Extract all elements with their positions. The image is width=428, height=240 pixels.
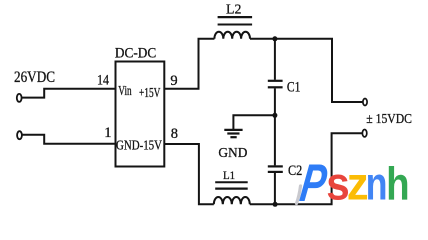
svg-text:h: h	[386, 157, 410, 209]
svg-text:26VDC: 26VDC	[14, 69, 55, 86]
svg-text:L2: L2	[226, 2, 241, 17]
svg-text:Vin: Vin	[118, 83, 132, 98]
svg-text:C1: C1	[287, 79, 301, 95]
svg-text:GND: GND	[218, 146, 247, 161]
svg-text:GND-15V: GND-15V	[116, 137, 162, 152]
svg-text:C2: C2	[288, 163, 302, 179]
svg-text:14: 14	[97, 72, 110, 88]
svg-text:n: n	[366, 157, 388, 209]
svg-text:8: 8	[171, 126, 178, 142]
svg-text:9: 9	[170, 73, 177, 89]
svg-text:+15V: +15V	[139, 85, 161, 100]
svg-text:1: 1	[104, 125, 111, 141]
svg-text:DC-DC: DC-DC	[115, 46, 156, 62]
svg-text:L1: L1	[223, 168, 235, 182]
svg-text:± 15VDC: ± 15VDC	[366, 111, 412, 126]
